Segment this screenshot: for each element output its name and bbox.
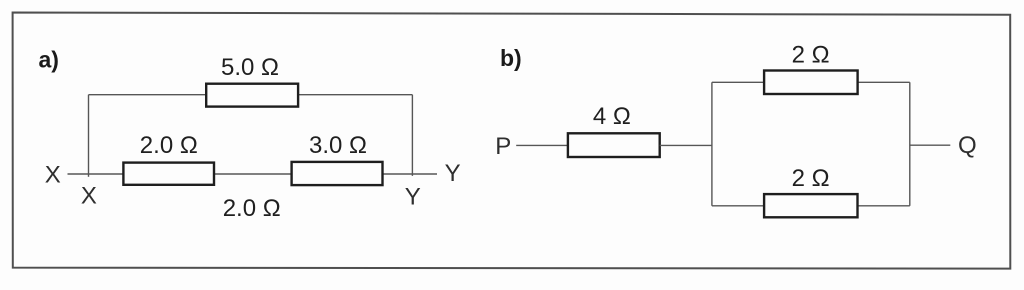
svg-text:2.0 Ω: 2.0 Ω [140,132,198,159]
wire: top branch [89,94,413,96]
resistor 5.0 ohm [206,84,298,107]
wire: top parallel branch [712,81,910,83]
svg-text:a): a) [39,47,59,73]
wire: P to 4 ohm resistor [516,144,568,146]
svg-text:2.0 Ω: 2.0 Ω [223,195,281,222]
svg-text:b): b) [500,45,522,71]
wire: right parallel rail [909,82,911,206]
resistor 3.0 ohm (right) [292,162,383,185]
wire: left vertical branch [88,95,90,177]
wire: left parallel rail [711,82,713,206]
svg-text:Q: Q [958,132,977,159]
wire: X terminal to junction and main horizontal X-Y [68,173,438,175]
wire: parallel section to Q [910,144,951,146]
svg-text:Y: Y [405,183,421,210]
svg-text:Y: Y [445,160,461,187]
wire: right vertical branch [411,95,413,176]
svg-text:3.0 Ω: 3.0 Ω [309,132,367,159]
svg-text:X: X [81,182,97,209]
svg-text:P: P [495,133,511,160]
svg-text:2 Ω: 2 Ω [792,165,830,192]
wire: bottom parallel branch [712,205,910,207]
resistor 2.0 ohm (left) [123,163,214,185]
svg-text:5.0 Ω: 5.0 Ω [221,54,279,81]
svg-text:2 Ω: 2 Ω [792,42,830,69]
resistor 2 ohm (top) [764,71,858,95]
resistor 4 ohm [568,133,660,157]
resistor 2 ohm (bottom) [764,194,857,217]
wire: 4 ohm resistor to parallel section [660,144,712,146]
svg-text:4 Ω: 4 Ω [593,103,631,130]
svg-text:X: X [45,162,61,189]
